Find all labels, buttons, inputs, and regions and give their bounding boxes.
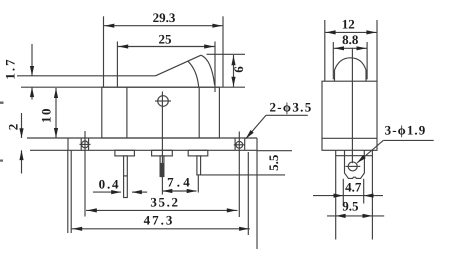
dim 8.8 extension lines	[332, 42, 334, 79]
dim 2 vertical segments	[21, 113, 23, 138]
rocker bottom-left edge with left extension line	[17, 75, 156, 77]
rocker dome side view	[334, 70, 336, 81]
bracket band internal verticals	[344, 150, 346, 155]
arrows 35.2	[87, 208, 97, 212]
dim 5.5 extension lines	[257, 150, 292, 152]
bracket outer edges extended (9.5 ext lines)	[335, 150, 337, 239]
svg-text:47.3: 47.3	[144, 212, 175, 227]
leader 2-phi3.5	[266, 114, 308, 116]
dim 8.8 line	[333, 47, 367, 49]
body centerline	[161, 92, 163, 195]
pin 2 (dark)	[160, 156, 164, 177]
svg-text:9.5: 9.5	[342, 198, 359, 213]
body side view rectangle	[322, 81, 377, 150]
left hole centerline / 35.2 extension	[84, 131, 86, 217]
scan edge artifacts	[0, 102, 4, 104]
dim 10 vertical	[55, 88, 57, 138]
arrows 8.8	[334, 46, 344, 50]
svg-text:7.4: 7.4	[167, 175, 193, 190]
dim 1.7 vertical segments	[31, 44, 33, 76]
arrow leader 3-phi1.9	[356, 155, 366, 165]
arrow leader 2-phi3.5	[244, 130, 254, 140]
svg-text:2-ϕ3.5: 2-ϕ3.5	[270, 100, 313, 115]
arrows 1.7	[30, 66, 34, 76]
body internal vertical right	[198, 87, 200, 138]
mounting flange bottom line	[30, 149, 257, 151]
left hole box	[80, 138, 82, 150]
dim 12 extension lines	[324, 20, 326, 81]
dim 4.7 extension lines	[342, 179, 344, 204]
pin 3	[197, 156, 201, 175]
arrows 2	[19, 128, 23, 138]
svg-text:29.3: 29.3	[153, 10, 176, 25]
dim 0.4 line segments	[93, 191, 121, 193]
right 47.3 extension line	[247, 152, 249, 235]
side view centerline	[351, 48, 353, 163]
svg-text:3-ϕ1.9: 3-ϕ1.9	[385, 122, 427, 137]
dim 12 line	[325, 31, 377, 33]
bracket band bottom line	[336, 155, 373, 157]
terminal tag outline	[345, 156, 365, 179]
terminal shoulder 2	[152, 150, 173, 156]
rocker actuator outline	[116, 42, 118, 88]
arrows 7.4	[163, 189, 173, 193]
svg-text:12: 12	[342, 17, 355, 32]
arrows 29.3	[105, 24, 115, 28]
right mounting hole	[236, 141, 243, 148]
svg-text:8.8: 8.8	[342, 32, 359, 47]
terminal shoulder 3	[188, 150, 208, 156]
left mounting hole	[82, 141, 89, 148]
dim 25 extension line right	[214, 42, 216, 93]
svg-text:4.7: 4.7	[345, 180, 362, 195]
dim 25 line	[117, 46, 215, 48]
arrows 6	[231, 56, 235, 66]
right hole box	[234, 138, 236, 150]
screw boss circle	[158, 96, 169, 107]
dim 29.3 line	[104, 25, 224, 27]
flange left edge extension lines down	[67, 150, 69, 233]
svg-text:10: 10	[38, 107, 53, 123]
mounting flange top line	[27, 137, 257, 139]
dim 47.3 line	[71, 228, 249, 230]
svg-text:6: 6	[231, 66, 246, 73]
svg-text:5.5: 5.5	[266, 154, 281, 171]
leader 3-phi1.9	[383, 139, 433, 141]
arrows 25	[118, 44, 128, 48]
right hole centerline / 35.2 extension	[238, 132, 240, 218]
arrows 12	[326, 30, 336, 34]
terminal shoulder 1	[115, 150, 134, 156]
pin 1	[124, 156, 128, 198]
dim 7.4 line	[163, 190, 197, 192]
body top line with left and right extensions	[21, 86, 245, 88]
svg-text:35.2: 35.2	[150, 194, 179, 209]
arrows 4.7	[334, 194, 344, 198]
dim 9.5 line	[327, 215, 384, 217]
dim 6 extension + line	[207, 53, 246, 55]
dim 35.2 line	[86, 209, 238, 211]
svg-text:2: 2	[5, 124, 20, 131]
body internal vertical left	[126, 87, 128, 138]
arrows 9.5	[336, 214, 346, 218]
terminal hole	[348, 162, 357, 171]
body side flange top line	[322, 137, 377, 139]
switch body rectangle	[102, 87, 220, 138]
flange left edge	[67, 138, 69, 150]
dim 29.3 extension lines	[103, 16, 105, 87]
svg-text:1.7: 1.7	[2, 57, 17, 79]
flange right edge extended down	[256, 138, 258, 249]
svg-text:0.4: 0.4	[99, 177, 121, 192]
arrows 10	[54, 88, 58, 98]
dim 4.7 line	[313, 195, 383, 197]
svg-text:25: 25	[159, 32, 173, 47]
arrows 0.4	[111, 190, 121, 194]
arrows 47.3	[72, 227, 82, 231]
